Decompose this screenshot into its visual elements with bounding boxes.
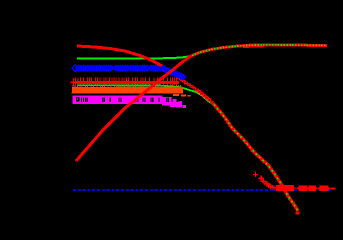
magenta band step-down right portion <box>162 97 172 106</box>
green flat line G1 left part <box>77 56 190 59</box>
final red dash on relic line <box>331 188 336 190</box>
red line B: ascending from lower left, flattening to top right <box>76 45 327 161</box>
red plus-marker fringe along composite line <box>212 102 216 106</box>
red plus series: vertical arms <box>75 78 77 86</box>
red plus cluster 1 on relic line <box>274 185 279 191</box>
magenta square series: solid band <box>72 95 162 104</box>
green dashed core of composite descending line <box>214 105 298 212</box>
orange series right tail segments <box>173 94 179 96</box>
red curve A: thick solid upper-left descending part <box>77 46 172 73</box>
short red under-segment near asymptote <box>243 45 264 48</box>
magenta band black slits <box>80 97 82 102</box>
red numerical pluses breaking away from equilibrium <box>253 172 258 177</box>
orange plus series: core band <box>72 87 183 94</box>
orange plus series: arm tips above band <box>72 85 74 88</box>
orange series left taper <box>71 89 75 94</box>
blue diamond series descending tail cluster <box>161 66 166 71</box>
red curve A: plus-marker descending part <box>170 70 174 74</box>
green line G2 flat part (between red and orange rows) <box>77 85 214 105</box>
magenta band black hole square <box>76 97 80 101</box>
red plus cluster 3 on relic line <box>318 186 323 192</box>
red+green composite steep descending line <box>214 105 298 212</box>
red plus cluster 2 on relic line <box>297 186 302 192</box>
green dashed overlay on riser and flat top tail <box>192 45 327 56</box>
blue diamond series: isolated first diamond <box>72 65 78 71</box>
red plus series: isolated left plus <box>71 78 77 86</box>
composite end red blob <box>296 212 300 215</box>
blue dashed horizontal relic abundance line <box>73 189 331 191</box>
blue diamond series dense chains <box>76 66 81 71</box>
red plus series: core band <box>77 81 180 84</box>
